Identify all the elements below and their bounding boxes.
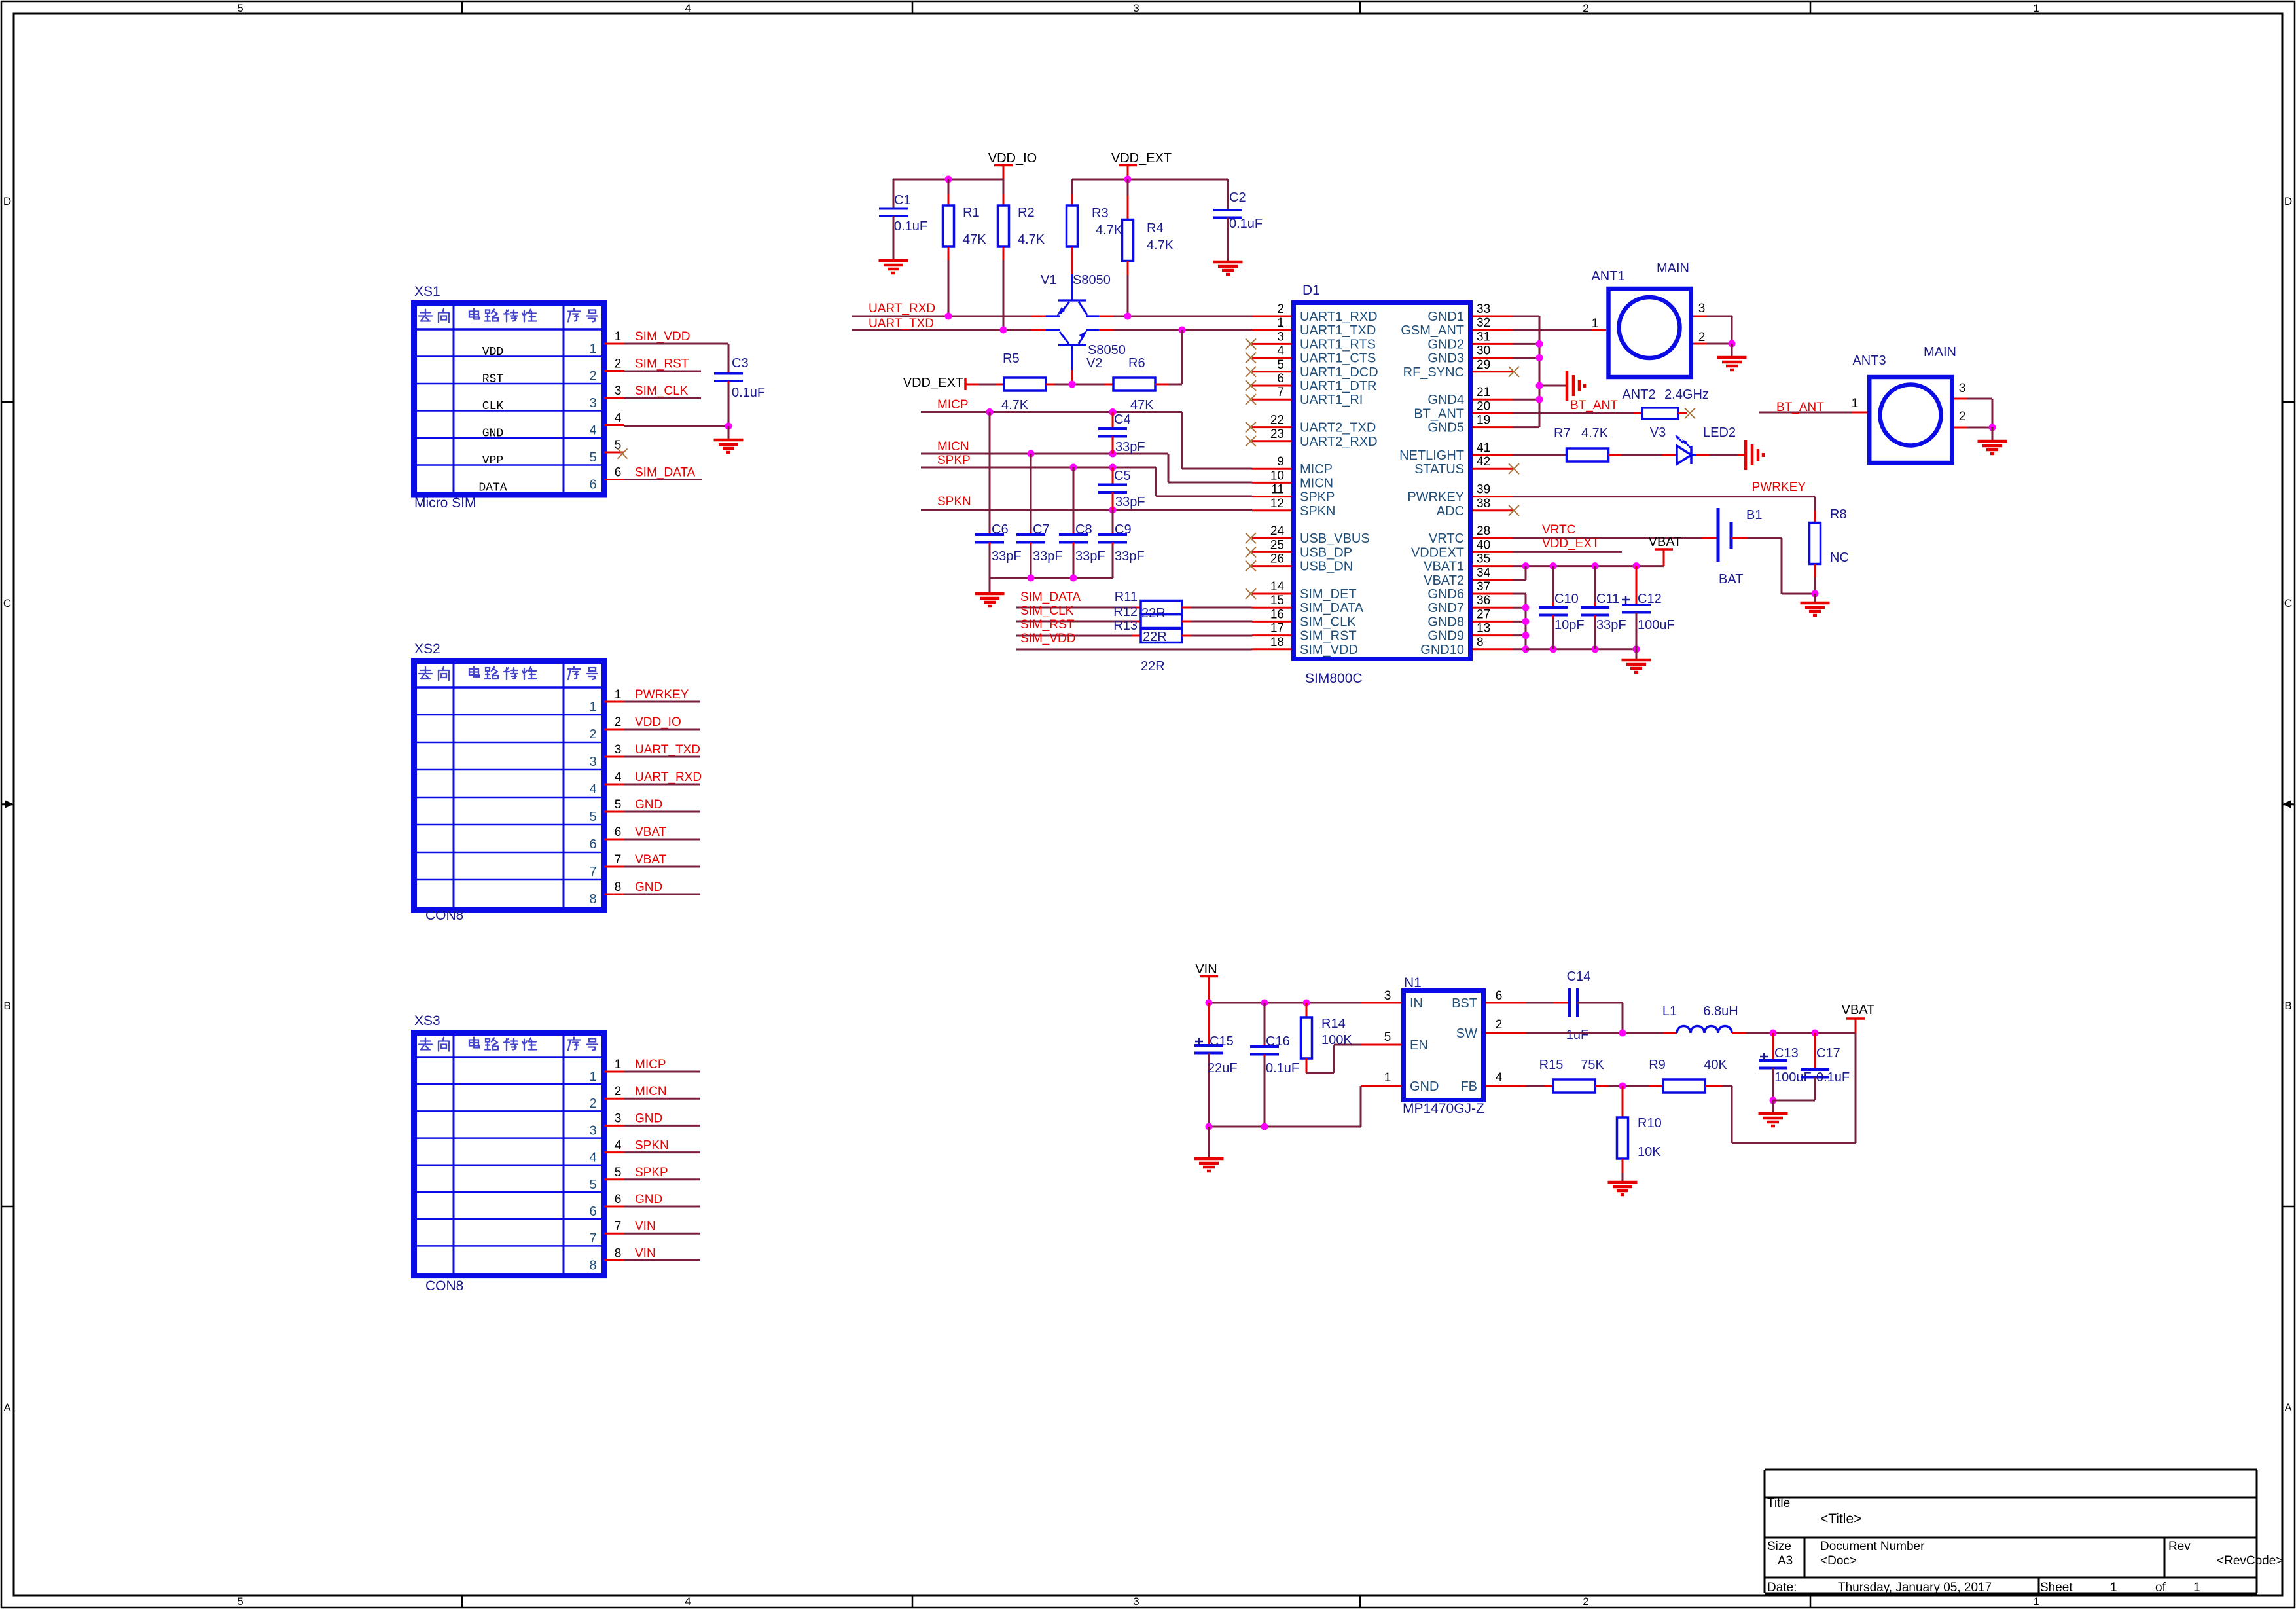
svg-text:A: A: [2284, 1401, 2292, 1414]
svg-text:22R: 22R: [1143, 630, 1167, 644]
svg-text:33pF: 33pF: [992, 549, 1022, 564]
svg-text:6: 6: [615, 825, 622, 839]
svg-text:IN: IN: [1410, 996, 1423, 1011]
svg-text:D: D: [2284, 195, 2292, 208]
svg-text:Title: Title: [1767, 1496, 1790, 1510]
svg-text:XS3: XS3: [414, 1013, 440, 1028]
svg-text:2: 2: [615, 1085, 622, 1098]
svg-text:34: 34: [1477, 566, 1491, 580]
svg-text:8: 8: [615, 880, 622, 894]
svg-text:EN: EN: [1410, 1038, 1428, 1053]
svg-text:Thursday, January 05, 2017: Thursday, January 05, 2017: [1838, 1581, 1992, 1595]
svg-text:5: 5: [615, 439, 622, 452]
svg-text:41: 41: [1477, 441, 1490, 455]
svg-text:SIM_DATA: SIM_DATA: [1300, 601, 1364, 615]
svg-text:VDD: VDD: [482, 346, 503, 359]
svg-text:6: 6: [589, 478, 596, 492]
svg-text:7: 7: [589, 1231, 596, 1246]
svg-text:2: 2: [589, 727, 596, 742]
svg-text:18: 18: [1270, 636, 1284, 649]
svg-text:SPKP: SPKP: [635, 1166, 668, 1180]
svg-text:4: 4: [615, 770, 622, 784]
svg-text:SIM_RST: SIM_RST: [1020, 618, 1075, 632]
svg-text:1: 1: [615, 330, 622, 344]
svg-text:<RevCode>: <RevCode>: [2217, 1554, 2283, 1568]
svg-text:ADC: ADC: [1437, 504, 1464, 518]
svg-text:C17: C17: [1816, 1046, 1840, 1060]
svg-text:5: 5: [237, 1595, 243, 1608]
svg-text:SIM_DET: SIM_DET: [1300, 587, 1357, 602]
svg-text:100K: 100K: [1321, 1033, 1352, 1047]
svg-text:A3: A3: [1778, 1554, 1793, 1568]
svg-text:1: 1: [1277, 316, 1284, 330]
svg-text:1: 1: [2033, 1595, 2039, 1608]
svg-text:33pF: 33pF: [1075, 549, 1105, 564]
svg-text:6: 6: [589, 1204, 596, 1219]
svg-text:MICN: MICN: [937, 440, 969, 454]
svg-text:MAIN: MAIN: [1657, 261, 1689, 276]
svg-text:14: 14: [1270, 580, 1285, 594]
svg-text:SPKN: SPKN: [1300, 504, 1335, 518]
svg-text:C7: C7: [1033, 522, 1050, 537]
svg-text:40: 40: [1477, 538, 1490, 552]
svg-text:UART_RXD: UART_RXD: [869, 302, 935, 316]
svg-text:C10: C10: [1554, 592, 1579, 606]
svg-text:C1: C1: [894, 193, 911, 208]
svg-text:8: 8: [589, 892, 596, 907]
svg-text:22uF: 22uF: [1208, 1061, 1238, 1076]
svg-text:2: 2: [1698, 331, 1706, 344]
svg-text:MICP: MICP: [635, 1058, 666, 1072]
svg-text:SIM_DATA: SIM_DATA: [1020, 590, 1081, 604]
svg-text:B1: B1: [1746, 508, 1762, 522]
svg-text:35: 35: [1477, 552, 1490, 566]
svg-text:3: 3: [589, 1123, 596, 1138]
svg-text:GND: GND: [635, 880, 662, 894]
svg-text:7: 7: [615, 1220, 622, 1233]
svg-text:R13: R13: [1113, 619, 1138, 633]
svg-text:CLK: CLK: [482, 400, 504, 413]
svg-text:6: 6: [615, 1193, 622, 1206]
svg-text:R3: R3: [1092, 206, 1109, 221]
svg-text:VDD_EXT: VDD_EXT: [1111, 151, 1172, 166]
svg-text:SPKP: SPKP: [1300, 490, 1335, 505]
svg-text:Document Number: Document Number: [1820, 1540, 1925, 1553]
svg-text:1: 1: [2033, 2, 2039, 14]
svg-text:2: 2: [589, 1096, 596, 1111]
svg-text:4.7K: 4.7K: [1001, 398, 1029, 412]
svg-text:UART1_RXD: UART1_RXD: [1300, 310, 1378, 324]
svg-text:UART1_RI: UART1_RI: [1300, 393, 1363, 407]
svg-text:1: 1: [615, 688, 622, 702]
svg-text:4.7K: 4.7K: [1581, 426, 1609, 441]
svg-text:8: 8: [1477, 636, 1484, 649]
svg-text:C16: C16: [1266, 1034, 1290, 1049]
svg-text:MICN: MICN: [1300, 476, 1333, 490]
svg-text:1: 1: [1592, 317, 1599, 331]
svg-text:12: 12: [1270, 497, 1284, 511]
svg-text:R6: R6: [1128, 356, 1145, 371]
svg-text:VDD_EXT: VDD_EXT: [903, 376, 963, 390]
svg-text:CON8: CON8: [425, 1278, 463, 1293]
svg-text:33pF: 33pF: [1033, 549, 1063, 564]
svg-text:GND1: GND1: [1427, 310, 1464, 324]
svg-text:30: 30: [1477, 344, 1490, 358]
svg-text:S8050: S8050: [1073, 273, 1111, 287]
svg-text:STATUS: STATUS: [1414, 462, 1464, 477]
svg-text:D: D: [3, 195, 11, 208]
svg-text:of: of: [2155, 1581, 2166, 1595]
svg-text:33pF: 33pF: [1115, 495, 1145, 509]
svg-text:SIM_VDD: SIM_VDD: [1020, 632, 1075, 645]
svg-text:UART1_DCD: UART1_DCD: [1300, 365, 1378, 380]
svg-text:Date:: Date:: [1767, 1581, 1797, 1595]
svg-text:R11: R11: [1115, 590, 1138, 604]
svg-text:0.1uF: 0.1uF: [1816, 1070, 1850, 1085]
svg-text:A: A: [3, 1401, 11, 1414]
svg-text:1: 1: [1384, 1071, 1391, 1085]
svg-text:V2: V2: [1086, 356, 1102, 371]
svg-text:2: 2: [1583, 1595, 1588, 1608]
svg-text:3: 3: [1133, 2, 1139, 14]
svg-text:FB: FB: [1460, 1079, 1477, 1094]
svg-text:37: 37: [1477, 580, 1490, 594]
svg-text:GND6: GND6: [1427, 587, 1464, 602]
svg-text:5: 5: [1277, 358, 1284, 372]
svg-text:3: 3: [589, 396, 596, 410]
svg-text:1: 1: [589, 1070, 596, 1084]
svg-text:20: 20: [1477, 399, 1490, 413]
svg-text:SIM_RST: SIM_RST: [635, 357, 689, 371]
svg-text:SIM_CLK: SIM_CLK: [635, 384, 689, 398]
svg-text:4: 4: [589, 782, 596, 797]
svg-text:MAIN: MAIN: [1924, 345, 1956, 359]
svg-text:ANT3: ANT3: [1852, 353, 1886, 368]
svg-text:SPKN: SPKN: [937, 495, 971, 509]
svg-text:R2: R2: [1018, 206, 1035, 220]
svg-text:1: 1: [2110, 1581, 2117, 1595]
svg-text:3: 3: [589, 755, 596, 769]
svg-text:3: 3: [615, 1112, 622, 1125]
svg-text:R14: R14: [1321, 1017, 1346, 1031]
svg-text:4: 4: [589, 424, 596, 438]
svg-text:25: 25: [1270, 538, 1284, 552]
svg-text:1: 1: [589, 342, 596, 356]
svg-text:USB_DP: USB_DP: [1300, 545, 1352, 560]
svg-text:BST: BST: [1452, 996, 1477, 1011]
svg-text:B: B: [3, 1000, 10, 1012]
svg-text:MICP: MICP: [937, 398, 969, 412]
svg-text:39: 39: [1477, 483, 1490, 497]
svg-text:PWRKEY: PWRKEY: [1752, 480, 1806, 494]
svg-text:MICP: MICP: [1300, 462, 1333, 477]
svg-text:GND8: GND8: [1427, 615, 1464, 629]
svg-text:MP1470GJ-Z: MP1470GJ-Z: [1403, 1101, 1484, 1116]
svg-text:GND10: GND10: [1420, 643, 1464, 657]
svg-text:BT_ANT: BT_ANT: [1570, 399, 1618, 412]
svg-text:4.7K: 4.7K: [1096, 223, 1123, 238]
svg-text:24: 24: [1270, 524, 1285, 538]
svg-text:GND: GND: [1410, 1079, 1439, 1094]
svg-text:13: 13: [1477, 622, 1490, 636]
svg-text:C13: C13: [1774, 1046, 1799, 1060]
svg-text:40K: 40K: [1704, 1058, 1727, 1072]
svg-text:22R: 22R: [1141, 606, 1166, 621]
svg-text:2.4GHz: 2.4GHz: [1664, 388, 1709, 402]
svg-text:UART1_CTS: UART1_CTS: [1300, 352, 1376, 366]
svg-text:BAT: BAT: [1719, 572, 1743, 587]
svg-text:4: 4: [685, 2, 691, 14]
svg-text:22: 22: [1270, 414, 1284, 427]
svg-text:GND: GND: [482, 427, 503, 441]
svg-text:R7: R7: [1554, 426, 1571, 441]
svg-text:USB_VBUS: USB_VBUS: [1300, 532, 1370, 546]
svg-text:XS1: XS1: [414, 284, 440, 299]
svg-text:6: 6: [1277, 372, 1284, 386]
svg-text:31: 31: [1477, 330, 1490, 344]
svg-text:BT_ANT: BT_ANT: [1776, 401, 1824, 414]
svg-text:LED2: LED2: [1703, 425, 1736, 440]
svg-text:UART_TXD: UART_TXD: [635, 743, 700, 757]
svg-text:28: 28: [1477, 524, 1490, 538]
svg-text:3: 3: [1384, 989, 1391, 1003]
svg-text:27: 27: [1477, 607, 1490, 621]
svg-text:Rev: Rev: [2168, 1540, 2191, 1553]
svg-text:D1: D1: [1302, 283, 1320, 298]
svg-text:R15: R15: [1539, 1058, 1564, 1072]
svg-text:RST: RST: [482, 373, 504, 386]
svg-text:6.8uH: 6.8uH: [1703, 1004, 1738, 1019]
svg-text:38: 38: [1477, 497, 1490, 511]
svg-text:C6: C6: [992, 522, 1009, 537]
svg-text:VPP: VPP: [482, 454, 503, 467]
svg-text:UART1_TXD: UART1_TXD: [1300, 323, 1376, 338]
svg-text:26: 26: [1270, 552, 1284, 566]
svg-text:SIM_CLK: SIM_CLK: [1300, 615, 1356, 629]
svg-text:XS2: XS2: [414, 642, 440, 657]
svg-text:UART1_RTS: UART1_RTS: [1300, 337, 1376, 352]
svg-text:R5: R5: [1003, 352, 1020, 366]
svg-text:VBAT: VBAT: [1649, 535, 1682, 549]
svg-text:22R: 22R: [1141, 659, 1165, 674]
svg-text:UART_RXD: UART_RXD: [635, 770, 702, 784]
svg-text:C12: C12: [1638, 592, 1662, 606]
svg-text:GND5: GND5: [1427, 421, 1464, 435]
svg-text:R4: R4: [1147, 221, 1164, 236]
svg-text:4.7K: 4.7K: [1147, 238, 1174, 253]
svg-text:GND: GND: [635, 798, 662, 812]
svg-text:5: 5: [237, 2, 243, 14]
svg-text:47K: 47K: [1130, 398, 1154, 412]
svg-text:4: 4: [615, 412, 622, 425]
svg-text:C14: C14: [1567, 969, 1591, 984]
svg-text:10: 10: [1270, 469, 1284, 482]
svg-text:1: 1: [1852, 397, 1859, 410]
svg-text:2: 2: [1583, 2, 1588, 14]
svg-text:1: 1: [2193, 1581, 2200, 1595]
svg-text:UART2_TXD: UART2_TXD: [1300, 421, 1376, 435]
svg-text:4: 4: [685, 1595, 691, 1608]
svg-text:7: 7: [1277, 386, 1284, 399]
svg-text:SW: SW: [1456, 1026, 1477, 1041]
svg-text:SIM_VDD: SIM_VDD: [635, 330, 690, 344]
svg-text:C8: C8: [1075, 522, 1092, 537]
svg-text:RF_SYNC: RF_SYNC: [1403, 365, 1464, 380]
svg-text:6: 6: [615, 466, 622, 480]
svg-text:VBAT: VBAT: [1842, 1003, 1875, 1017]
svg-text:0.1uF: 0.1uF: [732, 386, 765, 400]
svg-text:2: 2: [615, 715, 622, 729]
svg-text:VIN: VIN: [635, 1246, 656, 1260]
svg-text:SIM_VDD: SIM_VDD: [1300, 643, 1358, 657]
svg-text:USB_DN: USB_DN: [1300, 560, 1353, 574]
svg-text:GSM_ANT: GSM_ANT: [1401, 323, 1464, 338]
svg-text:SIM_RST: SIM_RST: [1300, 629, 1357, 643]
svg-text:4: 4: [589, 1151, 596, 1165]
svg-text:6: 6: [589, 837, 596, 852]
svg-text:5: 5: [589, 1178, 596, 1192]
svg-text:3: 3: [615, 743, 622, 757]
svg-text:5: 5: [1384, 1030, 1391, 1044]
svg-text:R10: R10: [1638, 1116, 1662, 1130]
svg-text:11: 11: [1271, 483, 1284, 497]
svg-text:MICN: MICN: [635, 1085, 667, 1098]
svg-text:47K: 47K: [963, 232, 986, 247]
svg-text:R1: R1: [963, 206, 980, 220]
svg-text:VIN: VIN: [635, 1220, 656, 1233]
svg-text:VDD_EXT: VDD_EXT: [1542, 537, 1600, 551]
svg-text:C4: C4: [1114, 412, 1131, 427]
svg-text:C9: C9: [1115, 522, 1132, 537]
svg-text:VDD_IO: VDD_IO: [635, 715, 681, 729]
svg-text:Sheet: Sheet: [2040, 1581, 2073, 1595]
svg-text:VIN: VIN: [1195, 962, 1217, 977]
svg-text:36: 36: [1477, 594, 1490, 607]
svg-text:GND2: GND2: [1427, 337, 1464, 352]
svg-text:VDDEXT: VDDEXT: [1411, 545, 1464, 560]
svg-text:33pF: 33pF: [1115, 440, 1145, 454]
svg-text:15: 15: [1270, 594, 1284, 607]
svg-text:42: 42: [1477, 455, 1490, 469]
svg-text:VBAT: VBAT: [635, 853, 667, 867]
svg-text:<Title>: <Title>: [1820, 1511, 1861, 1527]
svg-text:9: 9: [1277, 455, 1284, 469]
svg-text:R9: R9: [1649, 1058, 1666, 1072]
svg-text:17: 17: [1270, 622, 1284, 636]
svg-text:3: 3: [615, 384, 622, 398]
svg-text:PWRKEY: PWRKEY: [635, 688, 689, 702]
svg-text:5: 5: [589, 810, 596, 824]
svg-text:3: 3: [1959, 382, 1966, 395]
svg-text:SIM_CLK: SIM_CLK: [1020, 604, 1074, 618]
svg-text:4.7K: 4.7K: [1018, 232, 1045, 247]
svg-text:SIM_DATA: SIM_DATA: [635, 466, 696, 480]
svg-text:GND3: GND3: [1427, 352, 1464, 366]
svg-text:75K: 75K: [1581, 1058, 1604, 1072]
svg-text:1uF: 1uF: [1566, 1028, 1588, 1042]
svg-text:L1: L1: [1662, 1004, 1677, 1019]
svg-text:16: 16: [1270, 607, 1284, 621]
svg-text:5: 5: [615, 798, 622, 812]
svg-text:C2: C2: [1229, 190, 1246, 205]
svg-text:1: 1: [615, 1058, 622, 1072]
svg-text:2: 2: [589, 369, 596, 384]
svg-text:5: 5: [589, 450, 596, 465]
svg-text:UART2_RXD: UART2_RXD: [1300, 435, 1378, 449]
svg-text:3: 3: [1133, 1595, 1139, 1608]
svg-text:VBAT2: VBAT2: [1424, 573, 1464, 588]
svg-text:4: 4: [1277, 344, 1284, 358]
svg-text:C3: C3: [732, 356, 749, 371]
svg-text:7: 7: [615, 853, 622, 867]
svg-text:SIM800C: SIM800C: [1305, 671, 1363, 686]
svg-text:0.1uF: 0.1uF: [894, 219, 927, 234]
svg-text:ANT2: ANT2: [1622, 388, 1655, 402]
svg-text:C: C: [3, 597, 11, 609]
svg-text:5: 5: [615, 1166, 622, 1180]
svg-text:R12: R12: [1113, 605, 1138, 619]
svg-text:GND9: GND9: [1427, 629, 1464, 643]
svg-text:2: 2: [1277, 302, 1284, 316]
svg-text:1: 1: [589, 700, 596, 714]
svg-text:CON8: CON8: [425, 908, 463, 923]
svg-text:10pF: 10pF: [1554, 618, 1585, 632]
svg-text:GND: GND: [635, 1112, 662, 1125]
svg-text:23: 23: [1270, 427, 1284, 441]
svg-text:PWRKEY: PWRKEY: [1407, 490, 1464, 505]
svg-text:19: 19: [1477, 414, 1490, 427]
svg-text:VBAT: VBAT: [635, 825, 667, 839]
svg-text:V3: V3: [1650, 425, 1666, 440]
svg-text:S8050: S8050: [1088, 343, 1126, 357]
svg-text:GND: GND: [635, 1193, 662, 1206]
svg-text:NETLIGHT: NETLIGHT: [1399, 448, 1464, 463]
svg-text:NC: NC: [1830, 551, 1849, 565]
svg-text:N1: N1: [1404, 975, 1422, 990]
svg-text:8: 8: [589, 1258, 596, 1273]
svg-text:C: C: [2284, 597, 2292, 609]
svg-text:GND4: GND4: [1427, 393, 1464, 407]
svg-text:100uF: 100uF: [1638, 618, 1675, 632]
svg-text:32: 32: [1477, 316, 1490, 330]
svg-text:SPKN: SPKN: [635, 1139, 669, 1153]
svg-text:Micro SIM: Micro SIM: [414, 496, 476, 511]
svg-text:33pF: 33pF: [1115, 549, 1145, 564]
svg-text:BT_ANT: BT_ANT: [1414, 407, 1464, 421]
svg-text:SPKP: SPKP: [937, 454, 971, 467]
svg-text:3: 3: [1698, 302, 1706, 316]
svg-text:GND7: GND7: [1427, 601, 1464, 615]
svg-text:V1: V1: [1041, 273, 1056, 287]
svg-text:29: 29: [1477, 358, 1490, 372]
svg-text:10K: 10K: [1638, 1145, 1661, 1159]
svg-text:0.1uF: 0.1uF: [1266, 1061, 1299, 1076]
svg-text:21: 21: [1477, 386, 1490, 399]
svg-text:4: 4: [1496, 1071, 1503, 1085]
svg-text:7: 7: [589, 865, 596, 879]
svg-text:33pF: 33pF: [1596, 618, 1626, 632]
svg-text:VDD_IO: VDD_IO: [988, 151, 1037, 166]
svg-text:6: 6: [1496, 989, 1503, 1003]
svg-text:UART_TXD: UART_TXD: [869, 317, 934, 331]
svg-text:VRTC: VRTC: [1429, 532, 1464, 546]
svg-text:C15: C15: [1210, 1034, 1234, 1049]
svg-text:DATA: DATA: [478, 482, 507, 495]
svg-text:R8: R8: [1830, 507, 1847, 522]
svg-text:3: 3: [1277, 330, 1284, 344]
svg-text:<Doc>: <Doc>: [1820, 1554, 1857, 1568]
svg-text:33: 33: [1477, 302, 1490, 316]
